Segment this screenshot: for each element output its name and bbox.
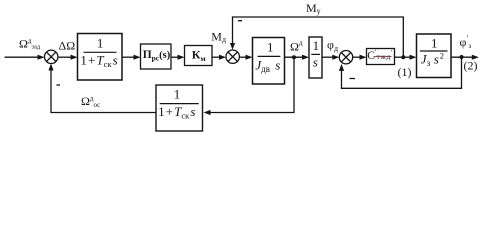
svg-text:1 + Tск s: 1 + Tск s <box>158 104 195 120</box>
svg-text:1 + Tск s: 1 + Tск s <box>80 53 117 69</box>
wire W1 to Prc <box>122 55 141 60</box>
block C equivalent stiffness <box>367 49 395 65</box>
block Woc: 1/(1+Tck s) feedback filter <box>156 85 203 131</box>
svg-text:ΔΩ: ΔΩ <box>59 39 76 53</box>
svg-text:1: 1 <box>174 87 181 102</box>
summing junction SJ3 <box>339 51 352 64</box>
wire SJ3 to C block <box>353 55 367 60</box>
summing junction SJ1 <box>45 50 58 63</box>
node dot 1 <box>401 55 405 59</box>
svg-text:1: 1 <box>267 40 274 55</box>
wire C block to J3 with node 1 <box>395 55 417 60</box>
wire input arrow <box>5 55 45 60</box>
wire SJ1 to block W1 <box>58 55 78 60</box>
minus sign at SJ1 <box>57 84 61 86</box>
node dot 2 <box>460 55 464 59</box>
node dot Omega_d <box>292 55 296 59</box>
svg-text:(1): (1) <box>398 65 412 79</box>
block Km <box>185 46 213 66</box>
wire position feedback node 2 to SJ3 <box>339 57 462 88</box>
block 1/(Jdv s) motor inertia <box>253 38 285 85</box>
wire Woc output to SJ1 <box>48 64 156 113</box>
svg-text:1: 1 <box>97 36 104 51</box>
svg-text:s: s <box>313 55 318 70</box>
minus sign at SJ3 <box>350 78 356 80</box>
summing junction SJ2 <box>226 50 239 63</box>
block 1/(J3 s^2) load <box>417 34 452 78</box>
wire output with node 2 <box>451 55 479 60</box>
minus sign at SJ2 <box>238 20 242 22</box>
svg-text:1: 1 <box>313 38 320 53</box>
wire Km to SJ2 <box>212 55 226 60</box>
wire speed feedback from Omega node down to block Woc <box>204 57 295 115</box>
svg-text:(2): (2) <box>464 58 478 72</box>
wire 1/s to SJ3 <box>322 55 339 60</box>
block W1: 1/(1+Tck s) <box>78 34 123 81</box>
svg-text:1: 1 <box>431 35 438 50</box>
block Prc(s) speed regulator <box>141 44 172 69</box>
wire SJ2 to Jdv <box>239 55 252 60</box>
wire Prc to Km <box>171 55 185 60</box>
wire My feedback from node 1 down into SJ2 <box>230 17 403 57</box>
block 1/s integrator <box>309 37 322 78</box>
wire Jdv to 1/s with speed node <box>285 55 310 60</box>
